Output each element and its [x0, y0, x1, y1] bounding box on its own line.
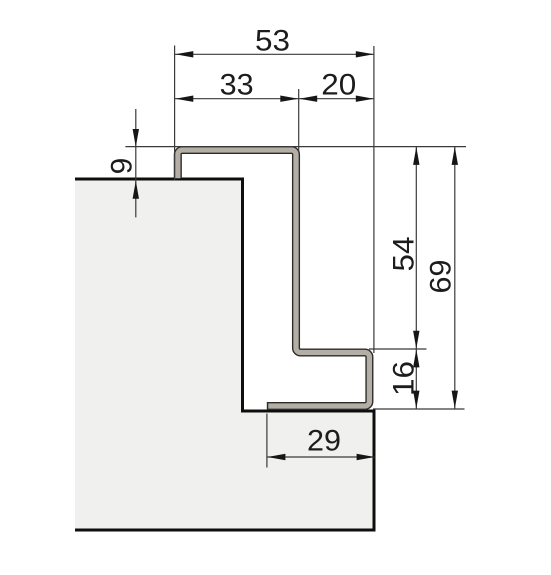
svg-text:20: 20 [321, 69, 356, 102]
extension line right x=373.9 [373, 46, 375, 353]
extension line step y=349 [369, 348, 427, 350]
extension line left x=174.6 [174, 46, 176, 181]
svg-text:33: 33 [220, 69, 254, 102]
extension line mid x=298.7 [298, 89, 300, 152]
wall section outline [75, 179, 374, 530]
svg-text:69: 69 [425, 260, 458, 294]
svg-text:53: 53 [255, 25, 290, 58]
dimension line 20 [299, 98, 374, 100]
extension line 29-left x=266.9 [266, 414, 268, 468]
profile outline (dark) [178, 150, 370, 406]
extension line bottom y=409 [373, 408, 465, 410]
svg-text:16: 16 [388, 361, 421, 396]
dimension 54 arrows [413, 147, 419, 165]
dimension line 54/16 x=416.3 [415, 147, 417, 409]
wall section fill [75, 179, 374, 530]
dimension line 33 [175, 98, 299, 100]
dimension line 69 [454, 147, 456, 409]
dimension 16 arrows [413, 349, 419, 367]
profile fill (sheet metal) [178, 150, 370, 406]
svg-text:9: 9 [106, 158, 139, 175]
dimension line 53 [175, 53, 374, 55]
svg-text:29: 29 [307, 425, 341, 458]
svg-text:54: 54 [388, 237, 421, 272]
dimension line 9 (vertical, arrows outside) [135, 109, 137, 217]
dimension line 29 [267, 456, 374, 458]
extension line top y=146.6 [125, 146, 466, 148]
